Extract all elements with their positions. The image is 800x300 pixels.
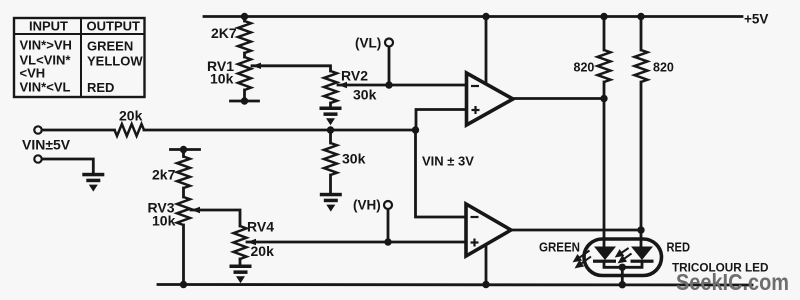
junction top rail / U1 supply: [482, 13, 489, 20]
wire 30k to ground: [329, 175, 332, 193]
svg-text:INPUT: INPUT: [29, 19, 68, 34]
svg-text:820: 820: [653, 61, 674, 75]
LED red emission arrows: [617, 248, 632, 262]
svg-text:RED: RED: [87, 80, 114, 95]
wire RV2 wiper to node VL: [338, 84, 467, 87]
junction top rail / 2K7: [241, 13, 248, 20]
resistor 820 right: [635, 50, 648, 82]
wire node V1 to 30k: [329, 130, 332, 143]
svg-text:VIN±5V: VIN±5V: [22, 137, 71, 153]
wire +5V top rail: [204, 15, 742, 18]
svg-text:RV2: RV2: [341, 68, 368, 84]
wire rail to 820 right: [640, 17, 643, 51]
wire 20k to node V1: [144, 129, 416, 132]
svg-text:30k: 30k: [353, 87, 377, 103]
svg-text:(VH): (VH): [353, 198, 381, 213]
junction top rail / 820 left: [600, 13, 607, 20]
op-amp U2 comparator: [466, 204, 511, 256]
wire RV1 bottom to T-stub: [243, 90, 246, 101]
wire RV3 wiper to RV4 top: [191, 210, 240, 226]
junction LED common cathode: [619, 264, 626, 271]
terminal (VL): [385, 39, 393, 47]
LED red diode: [631, 247, 654, 263]
svg-text:SeekIC.com: SeekIC.com: [676, 269, 789, 295]
wire node V1 to U2 minus input: [416, 130, 467, 217]
potentiometer RV1 10k: [238, 57, 251, 90]
svg-text:20k: 20k: [119, 108, 143, 124]
resistor 30k lower: [324, 143, 337, 175]
junction node V1 / 30k: [327, 126, 334, 133]
resistor 2K7 upper: [238, 21, 251, 53]
svg-text:YELLOW: YELLOW: [87, 54, 143, 69]
ground VIN return: [82, 173, 104, 192]
wire T-stub under RV1: [231, 100, 259, 103]
wire VIN return stub: [42, 159, 94, 173]
wire VH terminal drop: [387, 209, 390, 243]
potentiometer RV2 30k: [324, 71, 337, 103]
LED green emission arrows: [575, 251, 592, 268]
legend table: [14, 18, 145, 97]
wire 820 right to red LED anode: [640, 82, 643, 247]
wire U1 supply from rail: [485, 17, 488, 84]
svg-text:RV4: RV4: [247, 219, 274, 235]
ground 30k: [320, 193, 342, 212]
junction ground rail / LED cathode: [619, 281, 626, 288]
wire U2 supply to ground rail: [485, 244, 488, 285]
wiper arrow RV2: [338, 82, 347, 88]
junction ground rail / RV3 chain: [180, 281, 187, 288]
potentiometer RV4 20k: [234, 226, 247, 259]
junction 2k7 top stub: [180, 146, 187, 153]
wire RV4 wiper to node VH: [247, 241, 466, 244]
wiper arrow RV3: [191, 207, 200, 213]
potentiometer RV3 10k: [177, 197, 190, 225]
svg-text:2k7: 2k7: [152, 167, 176, 183]
svg-text:VIN*<VL: VIN*<VL: [20, 80, 71, 95]
junction top rail / 820 right: [637, 13, 644, 20]
svg-text:+5V: +5V: [744, 12, 768, 27]
junction node VH: [384, 238, 391, 245]
LED green diode: [593, 247, 616, 263]
junction RV1 bottom stub: [241, 97, 248, 104]
wiper arrow RV1: [252, 63, 261, 69]
junction U2 output / 820 right: [637, 226, 644, 233]
resistor 2k7 lower: [177, 157, 190, 189]
svg-text:OUTPUT: OUTPUT: [87, 19, 141, 34]
wire LED cathode to ground rail: [621, 267, 624, 284]
wire 2K7 to RV1: [243, 53, 246, 57]
svg-text:GREEN: GREEN: [87, 39, 133, 54]
wire T-stub to 2k7: [182, 150, 185, 157]
junction node VL: [385, 81, 392, 88]
junction ground rail / U2 supply: [482, 281, 489, 288]
ground RV2: [320, 107, 342, 126]
resistor 820 left: [598, 50, 611, 82]
terminal VIN-: [34, 155, 41, 162]
wire 820 left to green LED anode: [603, 82, 606, 247]
resistor 20k series input: [115, 124, 145, 136]
wire RV2 bottom to ground: [329, 103, 332, 107]
svg-text:VIN ± 3V: VIN ± 3V: [422, 154, 474, 169]
svg-text:820: 820: [574, 61, 595, 75]
svg-text:VIN*>VH: VIN*>VH: [20, 38, 72, 53]
terminal (VH): [384, 201, 392, 209]
wire RV1 wiper to RV2 top: [252, 66, 331, 71]
wire RV4 bottom to ground: [239, 259, 242, 265]
svg-text:30k: 30k: [342, 151, 366, 167]
ground RV4: [230, 265, 252, 284]
op-amp U1 comparator: [467, 73, 514, 125]
svg-text:RED: RED: [667, 240, 691, 255]
wire T-stub over 2k7: [171, 148, 200, 151]
wire rail to 2K7: [243, 17, 246, 22]
wire 2k7 to RV3: [182, 188, 185, 197]
wire U2 output to red branch: [511, 229, 641, 232]
junction U1 output / 820 left: [600, 95, 607, 102]
tricolour LED package outline: [584, 239, 662, 276]
wire VIN input to 20k: [42, 129, 115, 132]
wire LED common cathode: [604, 263, 642, 268]
wire rail to 820 left: [603, 17, 606, 51]
svg-text:(VL): (VL): [355, 36, 381, 51]
svg-text:10k: 10k: [152, 213, 176, 229]
terminal VIN+: [34, 126, 41, 133]
svg-text:<VH: <VH: [20, 66, 46, 81]
svg-text:2K7: 2K7: [211, 25, 237, 41]
svg-text:20k: 20k: [251, 243, 275, 259]
junction node V1 / op-amp inputs: [412, 126, 419, 133]
wire U1 output to green branch: [513, 97, 604, 100]
wire ground bottom rail: [158, 283, 752, 286]
svg-text:10k: 10k: [210, 71, 234, 87]
wiper arrow RV4: [247, 239, 256, 245]
wire RV3 bottom to ground rail: [182, 225, 185, 285]
svg-text:GREEN: GREEN: [539, 240, 580, 255]
wire VL terminal drop: [388, 46, 391, 85]
wire U1 plus input: [416, 110, 467, 131]
